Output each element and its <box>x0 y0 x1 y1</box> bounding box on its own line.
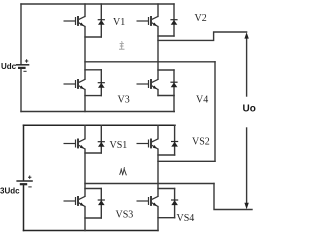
wire bridge1 left midpoint line <box>85 61 215 63</box>
Uo arrowhead bottom <box>244 203 248 209</box>
wire top rail bridge 2 <box>24 124 176 126</box>
wire V2 junction bar <box>158 35 174 37</box>
wire V3 diode branch <box>100 70 102 96</box>
wire V4 emitter lead <box>157 90 159 96</box>
Uo arrowhead top <box>244 32 248 38</box>
transistor V1 <box>64 16 86 27</box>
diode DS1 (VS1) <box>98 142 105 147</box>
transistor V2 <box>137 16 159 27</box>
wire V2 emitter / right leg vertical <box>157 27 159 80</box>
svg-text:V3: V3 <box>118 95 130 106</box>
battery 3Udc plus sign <box>28 176 31 179</box>
transistor VS4 <box>137 196 159 207</box>
wire VS4 emitter to bottom rail <box>157 207 159 231</box>
wire VS3 diode branch <box>100 189 102 219</box>
transistor VS1 <box>64 139 86 150</box>
wire series link vertical <box>214 62 216 162</box>
wire VS4 collector bar <box>158 188 175 190</box>
wire V1 collector lead <box>84 4 86 16</box>
wire VS2 diode branch <box>174 125 176 155</box>
svg-text:VS4: VS4 <box>177 213 195 224</box>
battery 3Udc minus sign <box>28 186 31 188</box>
wire V3 collector bar <box>85 69 101 71</box>
wire left edge bridge 2 lower <box>23 184 25 230</box>
wire V1 emitter-diode junction bar <box>85 36 101 38</box>
wire V4 leg to bottom rail <box>173 96 175 112</box>
svg-text:3Udc: 3Udc <box>0 187 20 196</box>
wire VS4 diode branch <box>174 189 176 218</box>
battery 3Udc short plate <box>20 183 27 185</box>
transistor V3 <box>64 79 86 90</box>
wire VS3 junction bar <box>85 217 101 219</box>
wire bottom output link <box>214 184 252 210</box>
svg-text:V4: V4 <box>196 95 208 106</box>
wire bridge2 right midpoint line <box>158 160 215 162</box>
wire VS2 junction bar <box>158 154 175 156</box>
battery 3Udc long plate <box>16 180 32 182</box>
wire VS1 collector lead <box>84 125 86 139</box>
wire VS2 emitter / right leg vertical <box>157 149 159 196</box>
wire VS2 collector lead <box>157 125 159 139</box>
svg-text:Uo: Uo <box>243 104 256 115</box>
wire left edge bridge 2 upper <box>23 125 25 180</box>
diode D2 (V2) <box>170 20 177 25</box>
battery Udc long plate <box>16 64 30 66</box>
transistor V4 <box>137 79 159 90</box>
svg-text:VS3: VS3 <box>116 210 134 221</box>
diode D4 (V4) <box>170 82 177 87</box>
wire V4 collector bar <box>158 69 174 71</box>
wire top rail bridge 1 <box>21 3 174 5</box>
transistor VS2 <box>137 139 159 150</box>
wire bottom rail bridge 1 <box>21 111 174 113</box>
wire Uo arrow line lower <box>246 128 248 205</box>
battery Udc minus sign <box>23 70 26 72</box>
hanzi zhu (main) <box>119 41 125 49</box>
diode DS3 (VS3) <box>98 200 105 205</box>
wire VS3 emitter lead <box>84 207 86 231</box>
transistor VS3 <box>64 196 86 207</box>
wire VS4 junction bar <box>158 217 175 219</box>
diode D3 (V3) <box>98 83 105 88</box>
svg-text:V1: V1 <box>113 17 125 28</box>
wire V1 diode branch <box>100 4 102 37</box>
wire VS1 diode branch <box>100 125 102 153</box>
wire VS3 collector bar <box>85 188 101 190</box>
wire bridge2 left midpoint line <box>85 183 214 185</box>
wire V4 diode branch <box>173 70 175 96</box>
wire bridge1 right midpoint output line <box>158 32 247 40</box>
wire left edge bridge 1 lower <box>20 68 22 112</box>
svg-text:VS2: VS2 <box>192 136 210 147</box>
svg-text:Udc: Udc <box>1 62 17 71</box>
diode DS4 (VS4) <box>171 200 178 205</box>
wire V2 collector lead <box>157 4 159 16</box>
wire V3 junction bar <box>85 95 101 97</box>
wire V3 emitter lead <box>84 90 86 112</box>
battery Udc short plate <box>18 67 26 69</box>
diode DS2 (VS2) <box>171 142 178 147</box>
svg-text:VS1: VS1 <box>110 140 128 151</box>
wire V1 emitter / left leg vertical <box>84 27 86 80</box>
wire VS1 junction bar <box>85 152 101 154</box>
wire VS1 emitter / left leg vertical <box>84 149 86 196</box>
wire left edge bridge 1 upper <box>20 4 22 64</box>
battery Udc plus sign <box>25 59 28 62</box>
wire V2 diode branch <box>173 4 175 36</box>
hanzi cong (slave) <box>120 167 127 175</box>
svg-text:V2: V2 <box>195 13 207 24</box>
wire bottom rail bridge 2 <box>24 230 159 232</box>
diode D1 (V1) <box>98 20 105 25</box>
wire Uo arrow line upper <box>246 37 248 96</box>
wire V4 junction bar <box>158 95 174 97</box>
